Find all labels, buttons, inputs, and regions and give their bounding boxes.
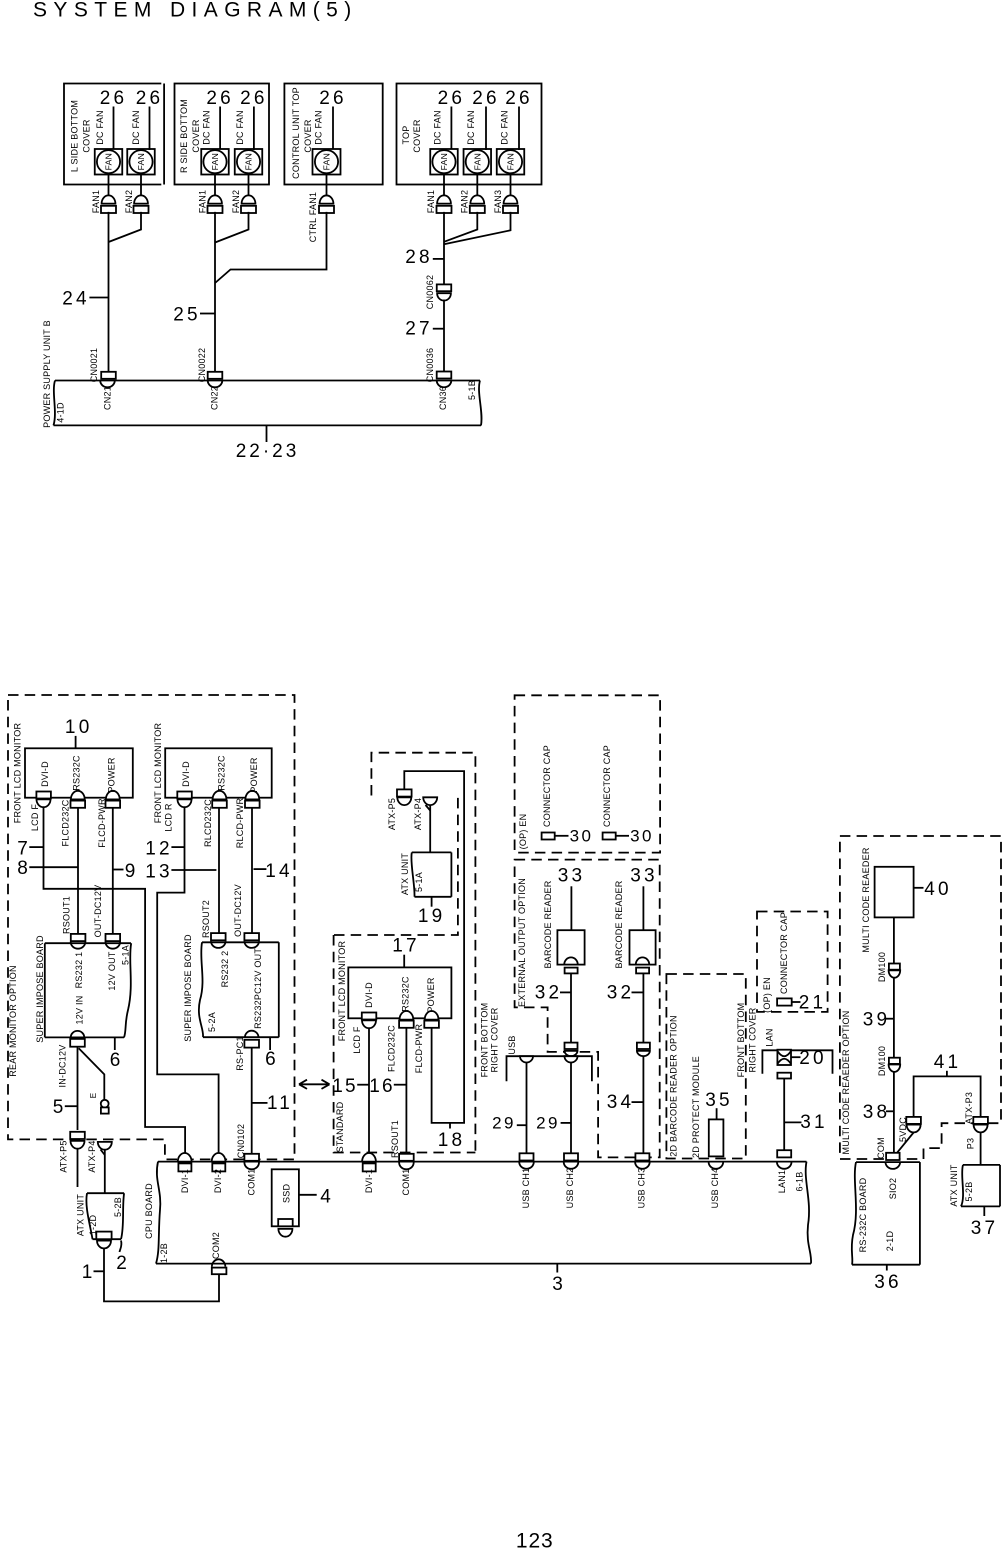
connector lan stub: [777, 1073, 791, 1079]
lan bracket: [762, 1050, 832, 1074]
board POWER SUPPLY UNIT B: [54, 381, 482, 426]
svg-text:FRONT BOTTOM: FRONT BOTTOM: [480, 1003, 490, 1078]
svg-text:DC FAN: DC FAN: [433, 110, 443, 145]
svg-text:RS-PC1: RS-PC1: [235, 1036, 245, 1071]
svg-text:36: 36: [874, 1272, 902, 1293]
wire FAN1(TOP) to CN0062: [443, 212, 445, 285]
label RSOUT2 sib2: [201, 900, 211, 938]
svg-text:15: 15: [332, 1076, 358, 1097]
wire fan T1 to connector: [443, 175, 445, 196]
label ATX-P5 mid: [387, 798, 397, 830]
label 4-1D: [56, 402, 66, 423]
port POWER m2: [245, 791, 260, 808]
label RS232PC: [253, 987, 263, 1029]
label CN36: [438, 386, 448, 410]
ref 41: [934, 1052, 962, 1076]
wire usb ch2: [570, 1063, 572, 1154]
svg-text:10: 10: [65, 717, 93, 738]
connector cap 21: [777, 998, 792, 1005]
terminal E: [101, 1100, 109, 1114]
label DC FAN T2: [466, 110, 476, 145]
svg-text:37: 37: [971, 1218, 999, 1239]
ref 20: [791, 1048, 827, 1069]
svg-text:SSD: SSD: [282, 1184, 292, 1204]
wire ATX-P5 rear down: [77, 1149, 79, 1187]
svg-text:R SIDE BOTTOM: R SIDE BOTTOM: [179, 99, 189, 173]
label 2-1D: [885, 1231, 895, 1252]
board RS-232C BOARD: [852, 1162, 920, 1265]
svg-text:MULTI CODE REAEDER OPTION: MULTI CODE REAEDER OPTION: [841, 1010, 851, 1154]
svg-text:REAR MONITOR OPTION: REAR MONITOR OPTION: [8, 965, 18, 1077]
svg-text:IN-DC12V: IN-DC12V: [58, 1044, 68, 1087]
connector FAN2 (L): [134, 195, 149, 213]
cover box CONTROL UNIT TOP COVER: [284, 84, 382, 185]
option box REAR MONITOR OPTION: [8, 695, 295, 1159]
label FAN1 (R): [198, 190, 208, 214]
label CONTROL UNIT TOP COVER: [291, 87, 313, 179]
ref 28: [405, 247, 444, 268]
svg-text:DVI-1: DVI-1: [180, 1169, 190, 1193]
svg-text:SUPER IMPOSE BOARD: SUPER IMPOSE BOARD: [35, 935, 45, 1043]
label RS232 2: [220, 951, 230, 988]
wire FAN3(TOP) join: [444, 212, 511, 244]
wire barcode2 lower: [642, 1056, 644, 1148]
ref 7: [17, 839, 43, 860]
svg-text:26: 26: [136, 88, 164, 109]
label COM1 std: [401, 1168, 411, 1195]
connector barcode2 mid: [637, 1043, 650, 1057]
svg-text:DC FAN: DC FAN: [500, 110, 510, 145]
connector DVI-1 std: [362, 1153, 376, 1171]
ref 33 b: [630, 866, 658, 931]
label DM100 b: [877, 1046, 887, 1076]
connector USB CH2: [564, 1153, 579, 1168]
svg-text:LAN: LAN: [765, 1028, 775, 1046]
svg-text:26: 26: [472, 88, 500, 109]
svg-text:CN21: CN21: [103, 386, 113, 410]
connector DM100 b: [889, 1058, 901, 1072]
label FAN1 (TOP): [426, 190, 436, 214]
label FAN1 (L): [91, 190, 101, 214]
svg-text:29: 29: [492, 1114, 516, 1133]
title SYSTEM DIAGRAM(5): [33, 0, 358, 22]
svg-text:12: 12: [145, 839, 173, 860]
svg-text:40: 40: [924, 879, 952, 900]
svg-text:COM: COM: [876, 1137, 886, 1159]
wire fan T2 to connector: [476, 175, 478, 196]
svg-text:FAN1: FAN1: [426, 190, 436, 214]
label RLCD232C: [203, 799, 213, 847]
wire 41 branch: [914, 1076, 981, 1117]
label SUPER IMPOSE BOARD 1: [35, 935, 45, 1043]
svg-text:DM100: DM100: [877, 1046, 887, 1076]
svg-text:USB CH4: USB CH4: [710, 1168, 720, 1209]
ref 26 L1: [100, 88, 128, 150]
svg-text:ATX UNIT: ATX UNIT: [949, 1164, 959, 1207]
label POWER m2: [249, 757, 259, 793]
svg-text:BARCODE READER: BARCODE READER: [614, 880, 624, 968]
page number: [516, 1530, 554, 1553]
port POWER m1: [106, 791, 121, 808]
svg-text:FLCD232C: FLCD232C: [61, 799, 71, 846]
label 12V OUT sib2: [253, 948, 263, 988]
label MULTI CODE READER OPTION: [841, 1010, 851, 1154]
wire DM100a to DM100b: [893, 978, 895, 1058]
svg-text:FAN1: FAN1: [91, 190, 101, 214]
port RSOUT2 sib2: [211, 933, 226, 948]
svg-text:14: 14: [265, 861, 293, 882]
svg-text:4-1D: 4-1D: [56, 402, 66, 423]
connector FAN2 (TOP): [470, 195, 485, 213]
svg-text:ATX-P3: ATX-P3: [964, 1092, 974, 1124]
wire RLCD-PWR: [251, 808, 253, 933]
svg-text:3: 3: [552, 1274, 563, 1295]
label CONNECTOR CAP c: [779, 912, 789, 994]
label FLCD232C: [61, 799, 71, 846]
svg-text:BARCODE READER: BARCODE READER: [543, 880, 553, 968]
wire usb ch3 tail: [642, 1148, 644, 1153]
label REAR MONITOR OPTION: [8, 965, 18, 1077]
svg-text:CN36: CN36: [438, 386, 448, 410]
wire POWER17 to ATX-P5 mid: [404, 771, 464, 1123]
label DC FAN CTRL: [314, 110, 324, 145]
svg-text:RIGHT COVER: RIGHT COVER: [748, 1007, 758, 1072]
wire fan R1 to connector: [214, 175, 216, 196]
svg-text:LCD F: LCD F: [30, 804, 40, 832]
dc fan L1: [95, 149, 123, 175]
svg-text:ATX-P5: ATX-P5: [59, 1140, 69, 1172]
connector ATX-P4 mid: [423, 797, 437, 810]
label CN22: [210, 386, 220, 410]
wire usb ch1: [526, 1063, 528, 1154]
connector USB CH4: [709, 1162, 724, 1169]
label DC FAN T3: [500, 110, 510, 145]
label 2D BARCODE READER OPTION: [669, 1015, 679, 1157]
connector FAN1 (L): [101, 195, 116, 213]
label ATX-P5 rear: [59, 1140, 69, 1172]
label LAN1: [777, 1170, 787, 1194]
svg-text:LCD F: LCD F: [352, 1026, 362, 1054]
wire fan L1 to connector: [108, 175, 110, 196]
label CN21: [103, 386, 113, 410]
dc fan T2: [464, 149, 492, 175]
svg-text:5-1A: 5-1A: [414, 872, 424, 892]
label COM1: [247, 1168, 257, 1195]
svg-text:7: 7: [17, 839, 28, 860]
alternative arrow: [299, 1080, 330, 1089]
label FAN2 (L): [124, 190, 134, 214]
svg-text:DVI-2: DVI-2: [213, 1169, 223, 1193]
svg-text:5-1A: 5-1A: [121, 945, 131, 965]
svg-text:35: 35: [705, 1090, 733, 1111]
svg-text:32: 32: [535, 983, 563, 1004]
svg-text:11: 11: [267, 1093, 293, 1114]
label LCD F m1: [30, 804, 40, 832]
ref 6 sib2: [265, 1037, 276, 1070]
label TOP COVER: [401, 119, 422, 153]
ref 39: [863, 1010, 894, 1031]
svg-text:(OP) EN: (OP) EN: [762, 977, 772, 1013]
connector FAN3 (TOP): [503, 195, 518, 213]
label LCD R m2: [163, 803, 173, 832]
board SUPER IMPOSE BOARD 1: [45, 943, 131, 1037]
connector COM1 std: [399, 1154, 414, 1170]
label FRONT BOTTOM RIGHT COVER 1: [480, 1003, 500, 1078]
port 12V IN sib1: [70, 1031, 85, 1047]
ref 21: [792, 993, 827, 1014]
wire LCD F DVI to DVI-1: [44, 807, 186, 1154]
svg-text:32: 32: [607, 983, 635, 1004]
svg-text:FRONT LCD MONITOR: FRONT LCD MONITOR: [337, 941, 347, 1042]
svg-text:26: 26: [319, 88, 347, 109]
wire CN0062 to CN0036: [443, 300, 445, 372]
ref 24: [62, 289, 108, 310]
port RS232C m3: [399, 1011, 414, 1028]
cover box R SIDE BOTTOM COVER: [175, 84, 270, 185]
svg-text:FAN: FAN: [244, 153, 254, 170]
svg-text:RS232C: RS232C: [72, 755, 82, 791]
svg-text:FLCD-PWR: FLCD-PWR: [414, 1024, 424, 1074]
wire fan T3 to connector: [510, 175, 512, 196]
label RSOUT1 std: [390, 1120, 400, 1158]
svg-text:9: 9: [125, 861, 136, 882]
dc fan R2: [235, 149, 263, 175]
ref 32 b: [607, 983, 644, 1004]
svg-text:DC FAN: DC FAN: [95, 110, 105, 145]
label E: [89, 1093, 98, 1099]
ref 30 b: [616, 827, 654, 846]
connector USB CH1: [519, 1153, 534, 1168]
label FRONT LCD MONITOR 3: [337, 941, 347, 1042]
connector 5VDC: [906, 1117, 921, 1132]
label CPU BOARD: [144, 1183, 154, 1239]
connector ATX-P3: [973, 1117, 988, 1132]
svg-text:CN22: CN22: [210, 386, 220, 410]
wire LCD R DVI to DVI-2: [157, 807, 218, 1154]
label RSOUT1 sib1: [62, 896, 72, 934]
label CONNECTOR CAP b: [602, 745, 612, 827]
label DC FAN T1: [433, 110, 443, 145]
svg-text:DC FAN: DC FAN: [131, 110, 141, 145]
svg-text:RLCD232C: RLCD232C: [203, 799, 213, 847]
svg-text:ATX-P4: ATX-P4: [87, 1140, 97, 1172]
label CN0021: [89, 348, 99, 383]
svg-text:12V OUT: 12V OUT: [107, 951, 117, 991]
svg-text:16: 16: [369, 1076, 395, 1097]
svg-text:CN0021: CN0021: [89, 348, 99, 383]
svg-text:POWER: POWER: [249, 757, 259, 793]
port RS232C m1: [71, 791, 86, 808]
component MULTI CODE READER: [875, 867, 914, 918]
svg-text:123: 123: [516, 1530, 554, 1553]
ref 2: [116, 1241, 127, 1275]
connector SIO2: [886, 1153, 901, 1169]
svg-text:FAN3: FAN3: [493, 190, 503, 214]
ref 9: [113, 861, 135, 882]
label DVI-1 std: [364, 1169, 374, 1193]
ref 26 R1: [206, 88, 234, 150]
svg-text:26: 26: [206, 88, 234, 109]
label CONNECTOR CAP a: [542, 745, 552, 827]
svg-text:6: 6: [110, 1050, 121, 1071]
label RS232C m1: [72, 755, 82, 791]
svg-text:CN0062: CN0062: [425, 275, 435, 310]
ref 10: [65, 717, 93, 748]
svg-text:FAN2: FAN2: [231, 190, 241, 214]
usb plug H2: [565, 1056, 578, 1062]
ref 37: [971, 1206, 999, 1239]
svg-text:26: 26: [240, 88, 268, 109]
svg-text:P3: P3: [966, 1138, 976, 1150]
board ATX UNIT 1-2D: [86, 1193, 124, 1239]
ref 26 L2: [136, 88, 164, 150]
board SUPER IMPOSE BOARD 2: [199, 942, 279, 1037]
svg-text:25: 25: [173, 305, 201, 326]
svg-text:DVI-D: DVI-D: [364, 982, 374, 1008]
wire fan R2 to connector: [248, 175, 250, 196]
board CPU BOARD / 6-1B: [156, 1162, 811, 1264]
connector ATX-P4 rear: [98, 1142, 112, 1155]
label POWER m1: [107, 757, 117, 793]
connector CN0022: [208, 372, 223, 388]
svg-text:FRONT LCD MONITOR: FRONT LCD MONITOR: [13, 723, 23, 824]
wire FAN2(TOP) join: [444, 212, 477, 242]
svg-text:RSOUT1: RSOUT1: [390, 1120, 400, 1158]
port DVI-D m1: [36, 792, 51, 808]
ref 26 T1: [438, 88, 466, 150]
label 12V IN: [75, 995, 85, 1024]
ref 3: [552, 1264, 563, 1295]
svg-text:RS232C: RS232C: [217, 755, 227, 791]
ref 29 b: [536, 1114, 571, 1133]
label DVI-D m2: [181, 761, 191, 787]
label DVI-D m3: [364, 982, 374, 1008]
svg-text:ATX UNIT: ATX UNIT: [76, 1194, 86, 1237]
svg-text:FLCD232C: FLCD232C: [387, 1025, 397, 1072]
svg-text:FAN: FAN: [210, 153, 220, 170]
svg-text:FRONT LCD MONITOR: FRONT LCD MONITOR: [153, 723, 163, 824]
label CN0062: [425, 275, 435, 310]
ref 27: [405, 319, 444, 340]
ref 5: [53, 1097, 78, 1118]
svg-text:CPU BOARD: CPU BOARD: [144, 1183, 154, 1239]
svg-text:SIO2: SIO2: [888, 1178, 898, 1200]
svg-text:RLCD-PWR: RLCD-PWR: [235, 798, 245, 849]
ref 26 R2: [240, 88, 268, 150]
port OUT-DC12V sib2: [244, 933, 259, 948]
svg-text:COVER: COVER: [82, 119, 92, 153]
ref 25: [173, 305, 215, 326]
ref 36: [874, 1265, 902, 1293]
svg-text:26: 26: [100, 88, 128, 109]
svg-text:USB CH1: USB CH1: [521, 1168, 531, 1209]
svg-text:20: 20: [799, 1048, 827, 1069]
label USB CH3: [637, 1168, 647, 1209]
svg-text:POWER SUPPLY UNIT B: POWER SUPPLY UNIT B: [42, 320, 52, 428]
svg-text:26: 26: [505, 88, 533, 109]
connector CN0036: [437, 372, 452, 388]
wire barcode2 down: [642, 973, 644, 1043]
svg-text:SYSTEM DIAGRAM(5): SYSTEM DIAGRAM(5): [33, 0, 358, 22]
port DVI-D m3: [362, 1013, 377, 1029]
component BARCODE READER 2: [630, 930, 656, 973]
port POWER m3: [424, 1011, 439, 1028]
label FLCD-PWR: [97, 798, 107, 848]
port RSOUT1 sib1: [71, 934, 86, 949]
ref 34: [607, 1092, 644, 1113]
ref 6 sib1: [110, 1037, 121, 1071]
ref 13: [145, 862, 216, 883]
label FLCD-PWR m3: [414, 1024, 424, 1074]
lan filter symbol: [777, 1050, 791, 1065]
wire FLCD232C: [77, 808, 79, 934]
svg-text:FAN2: FAN2: [460, 190, 470, 214]
label RS232 1: [74, 952, 84, 989]
ref 32 a: [535, 983, 571, 1004]
label MULTI CODE READER: [861, 847, 871, 953]
svg-text:26: 26: [438, 88, 466, 109]
label DC FAN L2: [131, 110, 141, 145]
connector FAN1 (R): [208, 195, 223, 213]
ref 35: [705, 1090, 733, 1119]
svg-text:COM2: COM2: [211, 1232, 221, 1259]
label ATX UNIT (5-2B): [949, 1164, 959, 1207]
ref 19: [418, 897, 446, 927]
label CN0102: [236, 1124, 246, 1159]
monitor box FRONT LCD MONITOR 2: [165, 748, 272, 797]
svg-text:L SIDE BOTTOM: L SIDE BOTTOM: [70, 100, 80, 172]
label ATX UNIT (1-2D): [76, 1194, 86, 1237]
svg-text:21: 21: [799, 993, 827, 1014]
connector DM100 a: [889, 964, 901, 978]
label SUPER IMPOSE BOARD 2: [183, 934, 193, 1042]
label DVI-2: [213, 1169, 223, 1193]
ref 26 T2: [472, 88, 500, 150]
svg-text:RS232PC: RS232PC: [253, 987, 263, 1029]
svg-text:COM1: COM1: [401, 1168, 411, 1195]
connector COM1: [244, 1154, 259, 1170]
svg-text:MULTI CODE REAEDER: MULTI CODE REAEDER: [861, 847, 871, 953]
svg-text:RSOUT1: RSOUT1: [62, 896, 72, 934]
svg-text:27: 27: [405, 319, 433, 340]
svg-text:19: 19: [418, 906, 446, 927]
connector cap 30 b: [603, 833, 616, 840]
connector DVI-2: [212, 1153, 226, 1171]
wire RSOUT1 std: [405, 1028, 407, 1154]
label COM: [876, 1137, 886, 1159]
wire reader to DM100a: [893, 917, 895, 963]
label DC FAN R1: [202, 110, 212, 145]
label DC FAN R2: [235, 110, 245, 145]
svg-text:29: 29: [536, 1114, 560, 1133]
label OUT-DC12V sib1: [93, 885, 103, 938]
label FAN2 (TOP): [460, 190, 470, 214]
label CN0036: [425, 348, 435, 383]
label ATX UNIT (5-1A): [400, 853, 410, 896]
option box (OP)EN connector caps: [515, 695, 661, 852]
svg-text:E: E: [89, 1093, 98, 1099]
svg-text:(OP) EN: (OP) EN: [518, 814, 528, 850]
svg-text:USB CH3: USB CH3: [637, 1168, 647, 1209]
svg-text:COVER: COVER: [303, 119, 313, 153]
svg-text:38: 38: [863, 1102, 891, 1123]
ref 1: [82, 1262, 104, 1283]
label FAN3 (TOP): [493, 190, 503, 214]
svg-text:RS-232C BOARD: RS-232C BOARD: [858, 1177, 868, 1252]
connector barcode1 mid: [565, 1043, 578, 1057]
svg-text:POWER: POWER: [107, 757, 117, 793]
label FAN2 (R): [231, 190, 241, 214]
